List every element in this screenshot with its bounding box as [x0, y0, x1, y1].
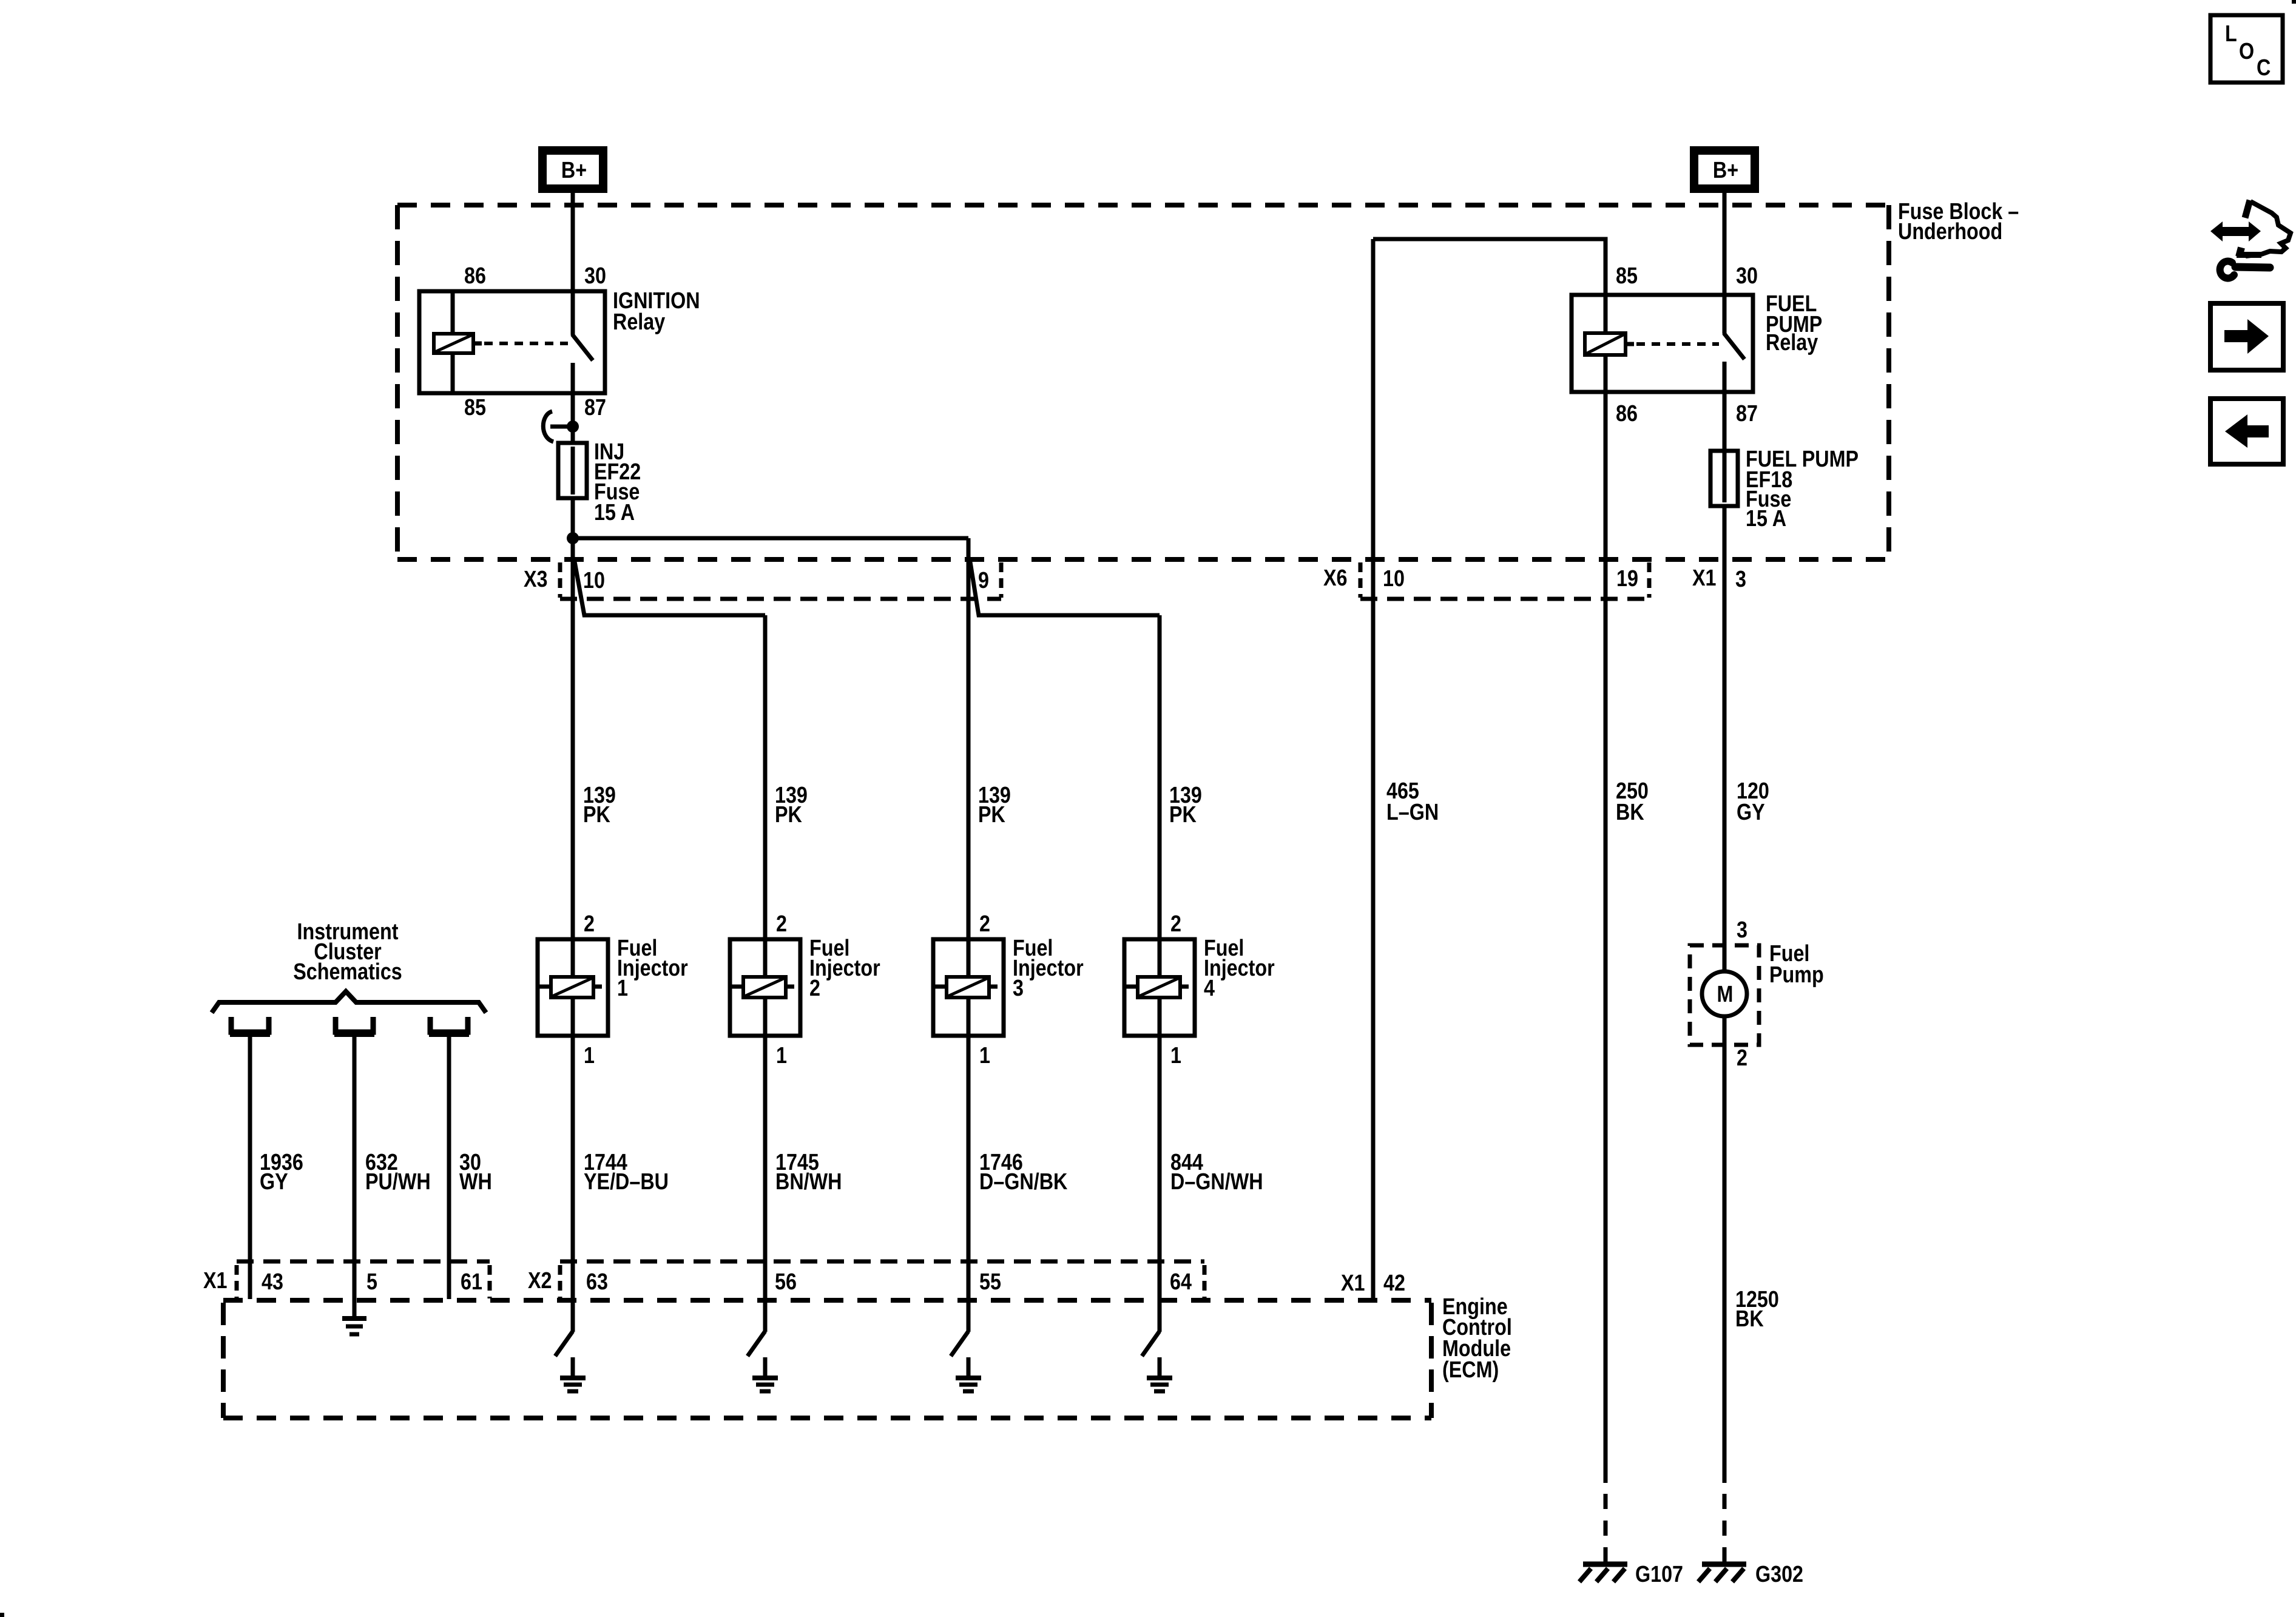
- page corner mark bottom left: [0, 1613, 4, 1617]
- svg-text:30: 30: [1736, 263, 1758, 289]
- wire drop to fuel injector 2: [763, 615, 768, 939]
- svg-text:86: 86: [1616, 401, 1638, 427]
- svg-text:63: 63: [586, 1269, 608, 1295]
- fuse block underhood dashed outline: [397, 205, 1889, 559]
- inline connector clip symbol: [543, 411, 553, 442]
- svg-text:2: 2: [809, 976, 820, 1001]
- connector X3 dashed box: [524, 562, 1001, 599]
- svg-text:GY: GY: [260, 1169, 288, 1195]
- svg-text:10: 10: [1383, 566, 1405, 592]
- svg-text:(ECM): (ECM): [1442, 1357, 1499, 1383]
- svg-text:Pump: Pump: [1769, 962, 1824, 988]
- icon wrench: [2220, 262, 2234, 279]
- svg-text:10: 10: [583, 568, 605, 593]
- fuel pump relay coil: [1604, 295, 1608, 334]
- wire 30 WH cluster to ECM X1-61: [447, 1035, 451, 1299]
- svg-text:X1: X1: [1341, 1271, 1365, 1296]
- wire label 139 PK injector 2: [775, 783, 808, 828]
- ground G107 chassis symbol: [1579, 1564, 1627, 1582]
- svg-text:B+: B+: [1713, 158, 1738, 183]
- wire label 139 PK injector 3: [978, 783, 1011, 828]
- label Engine Control Module (ECM): [1442, 1294, 1512, 1383]
- ECM driver switch injector 2: [748, 1331, 778, 1391]
- svg-text:C: C: [2257, 55, 2271, 81]
- ground G302 chassis symbol: [1698, 1564, 1746, 1582]
- svg-text:X1: X1: [203, 1268, 228, 1294]
- wire injector 4 pin 1 to ECM: [1158, 1036, 1162, 1332]
- fuel pump relay coil-to-switch dashed link: [1636, 342, 1719, 346]
- wire X3 pin 9 down to fuel injector 3: [967, 538, 971, 939]
- svg-text:WH: WH: [459, 1169, 492, 1195]
- fuse INJ EF22 15A: [558, 439, 641, 525]
- wire 250 BK relay 86 down: [1604, 392, 1608, 1483]
- label Instrument Cluster Schematics: [293, 919, 402, 985]
- svg-text:BN/WH: BN/WH: [775, 1169, 842, 1195]
- svg-text:1: 1: [776, 1043, 787, 1068]
- wire label 30 WH: [459, 1150, 492, 1195]
- fuel injector 4: [1124, 911, 1275, 1068]
- label Fuse Block - Underhood: [1898, 199, 2019, 245]
- wire 1936 GY cluster to ECM X1-43: [248, 1035, 252, 1299]
- svg-text:15 A: 15 A: [594, 500, 635, 525]
- svg-text:55: 55: [979, 1269, 1001, 1295]
- wire relay 87 down to fuse: [571, 393, 575, 444]
- svg-text:O: O: [2239, 39, 2254, 64]
- fuel pump motor: [1702, 945, 1747, 1045]
- dashed wire tail to G107: [1604, 1494, 1608, 1564]
- connector X6 dashed box: [1323, 562, 1649, 599]
- svg-text:85: 85: [464, 395, 486, 420]
- label Fuel Pump: [1769, 941, 1824, 988]
- svg-text:GY: GY: [1737, 800, 1765, 825]
- wire injector 1 pin 1 to ECM: [571, 1036, 575, 1332]
- connector symbol instrument wire 2: [336, 1017, 373, 1032]
- wire injector 3 pin 1 to ECM: [967, 1036, 971, 1332]
- svg-text:PK: PK: [1169, 802, 1197, 828]
- svg-text:3: 3: [1735, 567, 1746, 592]
- page corner mark top right: [2292, 0, 2296, 4]
- relay IGNITION Relay: [419, 263, 700, 420]
- ECM driver switch injector 4: [1142, 1331, 1172, 1391]
- svg-text:30: 30: [584, 263, 606, 289]
- fuel pump M1 dashed box: [1690, 945, 1759, 1045]
- svg-text:Relay: Relay: [1766, 330, 1818, 356]
- svg-text:M: M: [1717, 982, 1734, 1007]
- svg-text:86: 86: [464, 263, 486, 289]
- wire relay 87 to fuse EF18: [1723, 392, 1727, 454]
- svg-text:PU/WH: PU/WH: [365, 1169, 431, 1195]
- icon LOC box: [2210, 15, 2283, 83]
- svg-text:Underhood: Underhood: [1898, 219, 2002, 245]
- power B+ terminal right: [1694, 150, 1755, 189]
- ignition relay switch contact 30-87: [571, 291, 575, 335]
- svg-text:D–GN/WH: D–GN/WH: [1170, 1169, 1263, 1195]
- svg-text:YE/D–BU: YE/D–BU: [584, 1169, 669, 1195]
- wire drop to fuel injector 4: [1158, 615, 1162, 939]
- svg-text:2: 2: [979, 911, 990, 937]
- icon service hand with double arrow: [2210, 200, 2291, 279]
- junction node below fuse: [567, 532, 579, 544]
- icon back arrow box: [2210, 399, 2283, 464]
- svg-text:Relay: Relay: [613, 309, 665, 335]
- svg-text:2: 2: [584, 911, 595, 937]
- svg-text:PK: PK: [775, 802, 802, 828]
- wire label 120 GY: [1737, 778, 1769, 825]
- svg-text:87: 87: [584, 395, 606, 420]
- svg-text:G302: G302: [1755, 1562, 1803, 1587]
- svg-text:L: L: [2225, 21, 2237, 47]
- connector symbol instrument wire 1: [231, 1017, 269, 1032]
- svg-text:19: 19: [1616, 566, 1638, 592]
- ignition relay coil K1: [451, 291, 455, 334]
- fuel injector 2: [730, 911, 880, 1068]
- svg-text:4: 4: [1204, 976, 1215, 1001]
- wire label 465 L-GN: [1386, 778, 1439, 825]
- wire label 1746 D-GN/BK: [979, 1150, 1068, 1195]
- svg-text:1: 1: [617, 976, 628, 1001]
- wire 120 GY fuse to fuel pump: [1723, 506, 1727, 945]
- wire branch diagonal at pin 9 to injector 4: [970, 558, 1160, 615]
- brace under instrument cluster label: [212, 991, 486, 1013]
- wire branch diagonal at pin 10 to injector 2: [574, 558, 765, 615]
- svg-text:G107: G107: [1635, 1562, 1683, 1587]
- wire B+ right to fuel pump relay pin 30: [1723, 193, 1727, 296]
- ground symbol injector 3 driver: [956, 1376, 981, 1380]
- svg-text:9: 9: [978, 568, 989, 593]
- ground symbol injector 2 driver: [752, 1376, 778, 1380]
- wire label 1250 BK: [1735, 1287, 1779, 1332]
- power B+ terminal left: [542, 150, 603, 189]
- ECM driver switch injector 3: [951, 1331, 981, 1391]
- svg-text:15 A: 15 A: [1746, 506, 1786, 532]
- wire B+ left to ignition relay pin 30: [571, 193, 575, 292]
- wire label 632 PU/WH: [365, 1150, 431, 1195]
- svg-text:56: 56: [775, 1269, 797, 1295]
- dashed wire tail to G302: [1723, 1494, 1727, 1564]
- svg-text:85: 85: [1616, 263, 1638, 289]
- wire label 1745 BN/WH: [775, 1150, 842, 1195]
- fuse FUEL PUMP EF18 15A: [1710, 447, 1859, 532]
- svg-text:1: 1: [1170, 1043, 1181, 1068]
- wire 465 L-GN from fuse block X6-10 to ECM X1-42: [1371, 239, 1376, 1299]
- svg-text:2: 2: [776, 911, 787, 937]
- wire label 139 PK injector 1: [583, 783, 616, 828]
- wire 632 PU/WH cluster to ECM X1-5: [353, 1035, 357, 1299]
- svg-text:3: 3: [1013, 976, 1024, 1001]
- icon forward arrow box: [2210, 303, 2283, 370]
- svg-text:X6: X6: [1323, 565, 1348, 591]
- svg-text:L–GN: L–GN: [1386, 800, 1439, 825]
- relay FUEL PUMP Relay: [1572, 263, 1822, 427]
- ignition relay coil-to-switch dashed link: [484, 342, 568, 345]
- wire label 1744 YE/D-BU: [584, 1150, 669, 1195]
- fuel injector 1: [538, 911, 688, 1068]
- wire fuse to junction: [571, 498, 575, 540]
- connector symbol instrument wire 3: [430, 1017, 468, 1032]
- ECM dashed outline: [223, 1300, 1431, 1418]
- wire label 139 PK injector 4: [1169, 783, 1202, 828]
- wire 1250 BK fuel pump to ground: [1723, 1045, 1727, 1483]
- connector X1 ECM dashed box: [203, 1261, 490, 1298]
- wire injector 2 pin 1 to ECM: [763, 1036, 768, 1332]
- ground symbol injector 1 driver: [560, 1376, 586, 1380]
- svg-text:1: 1: [584, 1043, 595, 1068]
- svg-text:64: 64: [1170, 1269, 1192, 1295]
- svg-text:B+: B+: [561, 158, 587, 183]
- svg-text:BK: BK: [1735, 1306, 1764, 1332]
- svg-text:43: 43: [262, 1269, 283, 1295]
- svg-text:Schematics: Schematics: [293, 959, 402, 985]
- ground symbol injector 4 driver: [1147, 1376, 1172, 1380]
- wire label 1936 GY: [260, 1150, 303, 1195]
- svg-text:BK: BK: [1616, 800, 1644, 825]
- svg-text:X1: X1: [1692, 565, 1717, 591]
- ECM driver switch injector 1: [555, 1331, 586, 1391]
- svg-text:87: 87: [1736, 401, 1758, 427]
- svg-text:42: 42: [1383, 1271, 1405, 1296]
- connector X2 ECM dashed box: [528, 1261, 1204, 1298]
- ground symbol ECM pin 5: [342, 1299, 366, 1334]
- svg-text:2: 2: [1170, 911, 1181, 937]
- fuel injector 3: [933, 911, 1084, 1068]
- fuel pump relay switch contact 30-87: [1723, 295, 1727, 334]
- svg-text:PK: PK: [978, 802, 1005, 828]
- svg-text:2: 2: [1737, 1045, 1747, 1071]
- svg-text:61: 61: [461, 1269, 482, 1295]
- svg-text:3: 3: [1737, 917, 1747, 943]
- wire label 844 D-GN/WH: [1170, 1150, 1263, 1195]
- svg-text:PK: PK: [583, 802, 610, 828]
- wire junction to X3 pin 9 branch (horizontal): [573, 536, 968, 541]
- svg-text:D–GN/BK: D–GN/BK: [979, 1169, 1068, 1195]
- junction node at relay 87 / clip: [567, 420, 579, 433]
- svg-text:5: 5: [366, 1269, 377, 1295]
- wire label 250 BK: [1616, 778, 1649, 825]
- wire fuel pump relay pin 85 feed: [1373, 239, 1606, 295]
- svg-text:X3: X3: [524, 567, 548, 592]
- wire X3 pin 10 down to fuel injector 1: [571, 538, 575, 939]
- svg-text:1: 1: [979, 1043, 990, 1068]
- svg-text:X2: X2: [528, 1268, 552, 1294]
